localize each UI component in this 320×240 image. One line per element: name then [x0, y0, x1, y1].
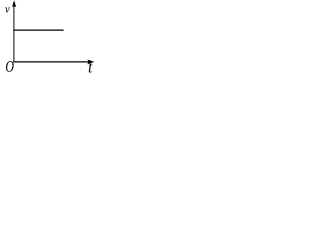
label t	[89, 63, 93, 73]
v axis	[13, 3, 15, 63]
label v	[5, 7, 10, 12]
label O	[6, 61, 14, 72]
graph line constant v	[13, 29, 63, 31]
t axis	[13, 61, 89, 63]
v axis arrowhead	[12, 0, 16, 7]
t axis arrowhead	[87, 59, 94, 64]
